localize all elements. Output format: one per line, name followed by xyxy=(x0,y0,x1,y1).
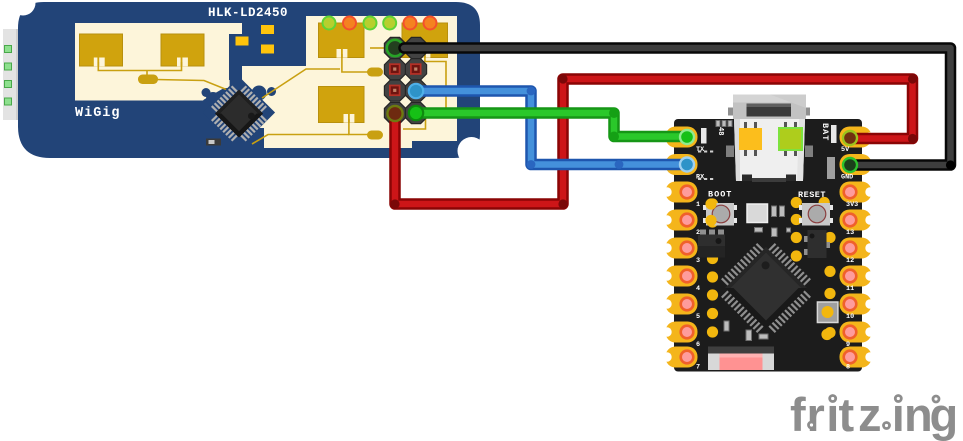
passive component (yellow pad) xyxy=(261,25,274,34)
svg-text:1: 1 xyxy=(696,201,700,209)
feed trace bus left block xyxy=(98,62,181,71)
MCU castellated pad left xyxy=(666,322,698,343)
svg-text:TX: TX xyxy=(696,146,705,154)
svg-text:8: 8 xyxy=(846,364,850,372)
node: MCU TX pad xyxy=(680,130,694,144)
trace under header J2 xyxy=(403,114,426,129)
USB bottom tabs xyxy=(742,175,796,183)
antenna patch RX1 xyxy=(319,23,365,58)
svg-text:WiGig: WiGig xyxy=(75,106,121,121)
trace chip to RX block diagonal xyxy=(262,69,340,98)
passive component xyxy=(759,334,768,339)
passive component xyxy=(724,321,729,331)
svg-text:10: 10 xyxy=(846,313,854,321)
via hole left column xyxy=(707,234,718,245)
radar SoC U1 xyxy=(204,79,273,148)
trace header pin5 stub xyxy=(370,47,386,49)
wire blue RX: header J2 pin6 to MCU RX xyxy=(416,91,688,165)
MCU castellated pad right xyxy=(840,238,872,259)
keepout nub right xyxy=(267,87,276,96)
LED green xyxy=(383,17,396,30)
wire black bend joint xyxy=(946,160,955,169)
svg-text:3V3: 3V3 xyxy=(846,201,858,209)
via hole left column xyxy=(707,326,718,337)
crystal Y1 xyxy=(747,204,768,223)
trace RX2 feed xyxy=(425,54,446,113)
module HLK-LD2450 PCB body xyxy=(18,2,480,158)
header J2 body xyxy=(384,37,426,123)
via hole left column xyxy=(707,308,718,319)
MCU pad hole right xyxy=(842,349,857,364)
passive component xyxy=(728,121,732,127)
panel mouse-bite notch bottom-right xyxy=(458,137,486,165)
transistor Q1 (SOT-23) xyxy=(804,230,830,258)
component R2 (white) xyxy=(701,128,707,144)
keepout around chip U1 xyxy=(203,34,275,157)
svg-text:BOOT: BOOT xyxy=(708,190,732,200)
patch RX1 feed notch xyxy=(337,49,348,58)
MCU castellated pad left xyxy=(666,154,698,175)
keepout nub left xyxy=(202,88,211,97)
header J2 socket pin row2 col1 xyxy=(389,63,401,75)
wire green TX: header J2 pin8 to MCU TX xyxy=(416,113,688,137)
wire red bend joint xyxy=(908,74,917,83)
MCU castellated pad left xyxy=(666,182,698,203)
header J2 socket pin row2 col2 xyxy=(410,63,422,75)
passive component xyxy=(772,228,778,237)
trace RX3 feed xyxy=(349,119,368,135)
feed stub to combiner xyxy=(146,71,148,78)
trace to chip from left block xyxy=(156,80,230,92)
passive component xyxy=(755,228,763,233)
MCU castellated pad left xyxy=(666,238,698,259)
USB connector J3 shell tabs xyxy=(728,108,810,116)
component SW3 (right mid) xyxy=(817,302,838,323)
via hole right column xyxy=(821,329,832,340)
svg-text:13: 13 xyxy=(846,229,854,237)
MCU castellated pad right xyxy=(840,210,872,231)
LED power (orange) xyxy=(739,122,762,156)
node: header pin6 (blue end) xyxy=(409,84,423,98)
MCU castellated pad right xyxy=(840,127,872,148)
node: MCU GND pad xyxy=(843,158,857,172)
component R3 (white) xyxy=(831,125,837,143)
MCU chip U3 (ESP32) xyxy=(712,234,819,341)
trace bottom bus to chip xyxy=(252,135,349,145)
wire red bend joint xyxy=(390,199,399,208)
passive component xyxy=(772,206,777,217)
MCU pad hole right xyxy=(842,324,857,339)
MCU pad hole right xyxy=(842,268,857,283)
MCU castellated pad right xyxy=(840,294,872,315)
connector pin pad 4 xyxy=(5,98,12,105)
passive component xyxy=(746,330,752,341)
MCU castellated pad left xyxy=(666,127,698,148)
antenna patch TX patch A xyxy=(80,34,123,66)
wire red bend joint xyxy=(558,199,567,208)
connector pin pad 1 xyxy=(5,46,12,53)
combiner stub (thick) xyxy=(138,75,158,85)
MCU pad hole right xyxy=(842,240,857,255)
via hole left column xyxy=(707,253,718,264)
USB side pads xyxy=(726,146,813,158)
passive component (yellow pad) xyxy=(261,45,274,54)
BOOT pads xyxy=(705,198,716,226)
connector pin pad 3 xyxy=(5,81,12,88)
svg-text:48: 48 xyxy=(716,127,724,135)
antenna ground plane left (TX antenna block) xyxy=(75,23,242,101)
MCU castellated pad right xyxy=(840,182,872,203)
passive component xyxy=(716,121,720,127)
svg-text:RX: RX xyxy=(696,174,705,182)
via hole left column xyxy=(707,271,718,282)
LED green xyxy=(323,17,336,30)
LED orange xyxy=(343,17,356,30)
node: MCU BAT pad xyxy=(843,131,857,145)
via hole right column xyxy=(791,214,802,225)
passive component xyxy=(787,228,791,232)
antenna patch RX2 xyxy=(402,23,448,58)
passive component xyxy=(722,121,726,127)
svg-text:HLK-LD2450: HLK-LD2450 xyxy=(208,6,288,20)
passive component xyxy=(780,206,785,217)
via hole right column xyxy=(819,197,830,208)
passive component (yellow pad) xyxy=(236,37,249,46)
panel mouse-bite notch top-left xyxy=(11,0,36,16)
MCU castellated pad right xyxy=(840,322,872,343)
patch RX2 feed notch xyxy=(420,49,431,58)
via hole right column xyxy=(824,288,835,299)
svg-text:11: 11 xyxy=(846,285,854,293)
fritzing logo xyxy=(790,388,958,441)
wire red VCC: header J2 pin7 to MCU BAT xyxy=(395,79,913,204)
header J2 pin row1 col2 (empty) xyxy=(411,43,421,53)
MCU pad hole right xyxy=(842,212,857,227)
svg-text:12: 12 xyxy=(846,257,854,265)
svg-text:BAT: BAT xyxy=(820,123,830,141)
svg-text:GND: GND xyxy=(841,174,853,182)
svg-text:2: 2 xyxy=(696,229,700,237)
MCU castellated pad left xyxy=(666,347,698,368)
LED green xyxy=(364,17,377,30)
wire red bend joint xyxy=(558,74,567,83)
via hole left column xyxy=(707,216,718,227)
wire green bend joint xyxy=(609,132,619,142)
patch RX3 feed notch xyxy=(344,114,355,123)
via hole right column xyxy=(824,232,835,243)
edge connector J1 (left grey strip) xyxy=(3,29,19,120)
svg-text:3: 3 xyxy=(696,257,700,265)
wire red bend joint xyxy=(908,134,917,143)
MCU castellated pad right xyxy=(840,154,872,175)
RX3 combiner stub (thick) xyxy=(367,131,383,140)
wire blue bend joint xyxy=(527,87,536,96)
regulator U2 (SOT-23) xyxy=(698,230,725,258)
svg-text:RESET: RESET xyxy=(798,190,826,200)
chip antenna ANT1 (pink) xyxy=(708,347,774,371)
antenna ground plane right (RX antenna block) xyxy=(241,16,457,148)
svg-text:4: 4 xyxy=(696,285,700,293)
LED orange xyxy=(404,17,417,30)
via hole right column xyxy=(791,250,802,261)
MCU castellated pad left xyxy=(666,210,698,231)
via hole right column xyxy=(791,197,802,208)
LED status (green) xyxy=(779,122,802,156)
svg-text:5: 5 xyxy=(696,313,700,321)
MCU pad hole right xyxy=(842,184,857,199)
RX1 combiner stub (thick) xyxy=(367,68,383,77)
via hole left column xyxy=(707,198,718,209)
MCU castellated pad right xyxy=(840,266,872,287)
patch B feed notch xyxy=(177,58,188,67)
MCU pad hole right xyxy=(842,296,857,311)
castellation marks left xyxy=(698,151,713,153)
wire green bend joint xyxy=(609,108,619,118)
passive R near U1 xyxy=(206,139,221,146)
svg-text:6: 6 xyxy=(696,341,700,349)
castellation marks left xyxy=(698,178,713,180)
via hole right column xyxy=(824,327,835,338)
wire black GND: header J2 pin5 to MCU GND xyxy=(404,48,951,165)
node: header pin8 (green end) xyxy=(409,106,423,120)
component C2 (grey) xyxy=(827,157,835,179)
BOOT button SW1 xyxy=(703,203,737,226)
MCU castellated pad left xyxy=(666,266,698,287)
via hole right column xyxy=(824,266,835,277)
wire blue bend joint xyxy=(615,160,624,169)
svg-text:7: 7 xyxy=(696,364,700,372)
via hole right column xyxy=(791,232,802,243)
patch A feed notch xyxy=(94,58,105,67)
via hole right column xyxy=(819,214,830,225)
RESET button SW2 xyxy=(799,203,833,226)
LED orange xyxy=(424,17,437,30)
wire blue bend joint xyxy=(527,160,536,169)
USB connector J3 body xyxy=(734,119,805,181)
MCU castellated pad right xyxy=(840,347,872,368)
trace RX1 feed vertical xyxy=(342,54,368,72)
header J2 socket pin row3 col1 xyxy=(389,85,401,97)
svg-text:9: 9 xyxy=(846,341,850,349)
via hole left column xyxy=(707,289,718,300)
node: MCU RX pad xyxy=(680,158,694,172)
node: header pin7 (red end, olive ring) xyxy=(387,106,402,121)
USB connector J3 metal shell xyxy=(733,95,806,120)
castellation half-holes xyxy=(662,132,874,361)
svg-text:5V: 5V xyxy=(841,146,850,154)
ESP32 MCU board PCB body xyxy=(674,119,862,372)
antenna patch TX patch B xyxy=(161,34,204,66)
connector pin pad 2 xyxy=(5,63,12,70)
node: header pin5 (black end, green ring) xyxy=(387,40,403,56)
MCU castellated pad left xyxy=(666,294,698,315)
antenna patch RX3 (middle) xyxy=(319,87,365,123)
